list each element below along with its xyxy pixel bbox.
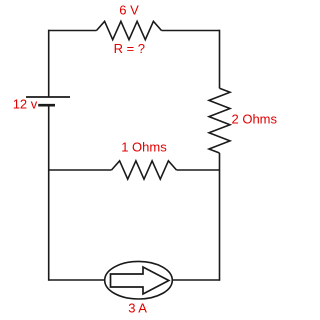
battery V1 short plate [38, 104, 55, 107]
wire bottom-left lead [49, 279, 105, 281]
resistor R2 (2 Ohms) [209, 88, 230, 153]
svg-text:12 v: 12 v [13, 96, 38, 111]
wire left vertical upper [48, 30, 50, 97]
svg-text:6 V: 6 V [119, 3, 139, 18]
battery V1 long plate [26, 96, 70, 98]
wire middle-right lead [177, 169, 220, 171]
resistor R3 (1 Ohms) [112, 161, 177, 179]
svg-text:R = ?: R = ? [114, 41, 145, 56]
svg-text:2 Ohms: 2 Ohms [232, 111, 278, 126]
svg-text:3 A: 3 A [128, 301, 147, 316]
wire top-right lead [162, 30, 220, 32]
current source I1 arrow [111, 267, 169, 294]
resistor R1 (R = ?) [97, 21, 162, 39]
wire right vertical upper [219, 30, 221, 89]
current source I1 ellipse [105, 261, 173, 299]
wire middle-left lead [49, 169, 112, 171]
wire left vertical lower [48, 104, 50, 280]
wire right vertical lower [219, 153, 221, 281]
svg-text:1 Ohms: 1 Ohms [121, 140, 167, 155]
wire top-left lead [49, 30, 97, 32]
wire bottom-right lead [172, 279, 220, 281]
